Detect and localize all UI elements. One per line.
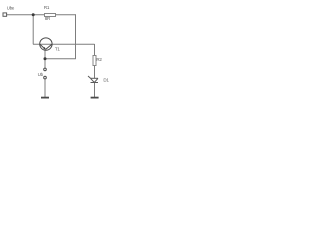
wire: D1 bottom to right ground — [94, 83, 96, 98]
svg-text:Ube: Ube — [7, 5, 15, 10]
ground left — [41, 97, 49, 99]
svg-text:R2: R2 — [96, 57, 102, 62]
wire: emitter horizontal rail — [45, 58, 76, 60]
terminal Ub lower — [44, 76, 47, 79]
wire: lower terminal down to left ground — [44, 79, 46, 98]
svg-text:D1: D1 — [103, 78, 109, 83]
svg-text:Ub: Ub — [38, 72, 44, 77]
wire: top rail from Ube terminal to right corner — [7, 14, 76, 16]
transistor T1 — [40, 38, 52, 50]
wire: collector corner down to R2 — [94, 44, 96, 56]
diode D1 — [88, 76, 98, 83]
resistor R1 — [45, 14, 56, 17]
terminal Ub upper — [44, 68, 47, 71]
ground right — [91, 97, 99, 99]
node B: emitter junction dot — [44, 57, 47, 60]
svg-text:T1: T1 — [55, 46, 60, 51]
emitter arrow T1 — [43, 47, 45, 49]
node A: junction dot base branch — [32, 13, 35, 16]
svg-text:R1: R1 — [44, 5, 50, 10]
wire: base/collector horizontal through transistor to R2 corner — [33, 43, 95, 45]
wire: emitter vertical from transistor to junction and terminal — [44, 49, 46, 68]
resistor R2 — [93, 56, 96, 66]
background — [0, 0, 130, 103]
wire: right vertical from top rail down to emitter rail — [75, 14, 77, 59]
wire: base branch vertical at x=33 — [32, 14, 34, 44]
wire: R2 bottom to D1 top — [94, 65, 96, 78]
terminal Ube (input) — [3, 13, 7, 16]
